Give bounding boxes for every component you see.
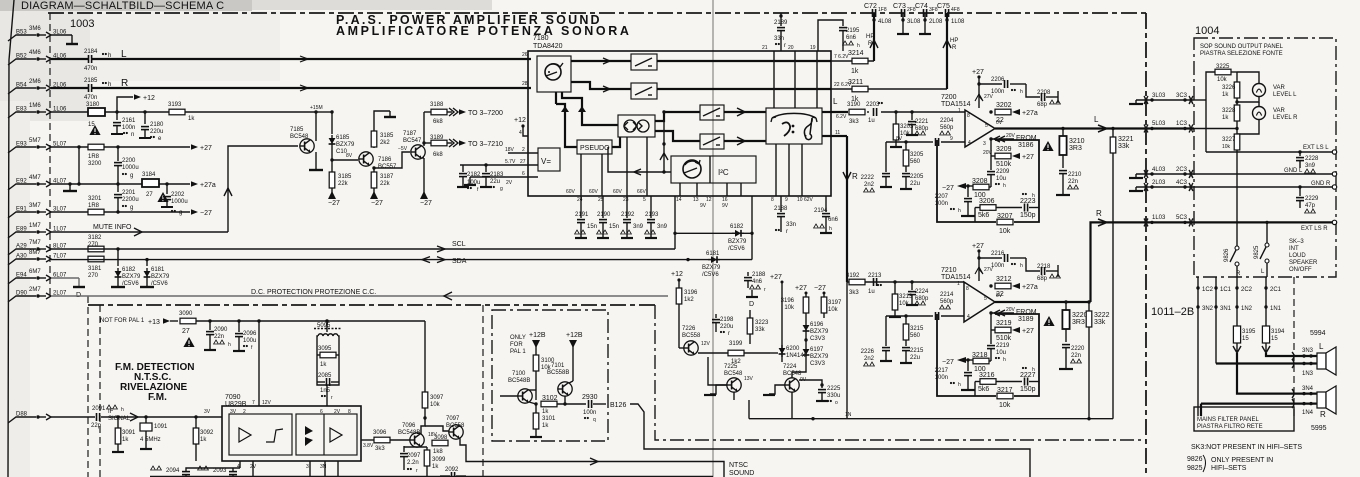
svg-text:15: 15 [1242,336,1249,342]
capacitor 2202 1000u [161,184,188,216]
svg-text:20V: 20V [983,150,993,156]
svg-text:−27: −27 [371,200,383,207]
svg-text:26: 26 [522,52,528,58]
wire pot links [1205,100,1207,152]
svg-text:/C5V6: /C5V6 [122,281,139,287]
capacitor 2192 3n9 [621,196,644,238]
svg-text:E93: E93 [16,142,27,148]
svg-text:7 6.2V: 7 6.2V [834,54,849,60]
svg-text:R: R [1320,410,1326,419]
label SOP panel [1200,44,1284,57]
svg-text:2225: 2225 [827,386,841,392]
svg-text:10 62V: 10 62V [797,197,814,203]
svg-text:3R3: 3R3 [1069,145,1082,152]
wire R to TDA8420 pin 28 [92,81,531,91]
resistor 3180 [86,102,105,128]
svg-text:6.2V: 6.2V [836,114,847,120]
svg-text:I²C: I²C [718,168,729,177]
svg-text:1N4148: 1N4148 [786,353,808,359]
svg-text:13: 13 [693,197,699,203]
svg-text:2189: 2189 [774,20,788,26]
resistor 3215 560 [903,316,924,346]
svg-text:+27: +27 [200,145,212,152]
capacitor 2185 470n [51,78,111,101]
svg-text:33n: 33n [786,222,796,228]
svg-text:/C5V6: /C5V6 [728,246,745,252]
svg-text:8V: 8V [346,153,353,159]
svg-text:5k6: 5k6 [978,212,989,219]
svg-text:R: R [868,41,873,47]
svg-text:SK–3: SK–3 [1289,239,1304,245]
svg-text:47p: 47p [1305,203,1316,209]
capacitor 2228 3n9 [1296,150,1319,173]
svg-text:D.C. PROTECTION PROTEZIONE: D.C. PROTECTION PROTEZIONE C.C. [251,289,376,296]
capacitor 2930 100n [582,394,606,423]
svg-text:3221: 3221 [1118,136,1134,143]
svg-text:3206: 3206 [979,198,995,205]
wire L to TDA8420 pin 26 [92,52,531,62]
svg-text:19: 19 [810,45,816,51]
connector B54 [8,79,67,94]
net -27 arrow [191,209,212,217]
capacitor 2200 1000u [114,147,139,184]
resistor 3197 10k [814,285,842,318]
capacitor 2184 470n [51,49,111,72]
zener 6181 BZX79/C5V6 [140,259,170,287]
svg-text:1n5: 1n5 [320,388,331,394]
capacitor 2090 22n [204,321,231,350]
net FROM 3186 [989,133,1036,149]
svg-text:3194: 3194 [1271,329,1285,335]
resistor 3210 3R3 [1059,127,1084,168]
wire SDA [51,196,754,265]
svg-text:B53: B53 [16,30,27,36]
resistor 3223 33k [747,310,769,344]
svg-text:1C3: 1C3 [1176,121,1188,127]
svg-text:9: 9 [950,136,953,142]
internal risers to bottom pins [771,144,814,203]
svg-text:B54: B54 [16,83,27,89]
svg-text:B126: B126 [610,402,626,409]
svg-text:F.M.: F.M. [148,392,167,403]
svg-text:PIASTRA FILTRO RETE: PIASTRA FILTRO RETE [1197,424,1263,430]
diode 6182 BZX79/C5V6 [675,224,752,252]
connector A30 [8,250,67,265]
transistor 7096 BC548B [398,423,438,447]
svg-text:HIFI–SETS: HIFI–SETS [1211,465,1247,472]
svg-text:3202: 3202 [996,102,1012,109]
resistor 3198 1k2 [676,288,698,340]
svg-text:2L08: 2L08 [929,19,943,25]
capacitor 2216 100n [979,251,1026,269]
connector E89 [8,223,67,238]
connector column 1C2/3N2 [1196,277,1213,416]
svg-text:1N3: 1N3 [1302,371,1314,377]
transistor 7226 BC558 [679,326,711,355]
svg-text:3092: 3092 [200,430,214,436]
capacitor 2220 22n [1059,345,1085,369]
svg-text:1F8: 1F8 [878,7,887,13]
svg-text:3210: 3210 [1069,138,1085,145]
svg-text:SOP SOUND OUTPUT PANEL: SOP SOUND OUTPUT PANEL [1200,44,1284,50]
svg-text:SCL: SCL [452,241,466,248]
svg-text:3.8V: 3.8V [363,443,374,449]
resistor 3207 10k [997,213,1013,235]
svg-text:3N4: 3N4 [1302,386,1314,392]
svg-text:E83: E83 [16,107,27,113]
resistor 3193 1k [168,102,195,122]
svg-text:2228: 2228 [1305,156,1319,162]
svg-text:3098: 3098 [434,435,448,441]
svg-text:2198: 2198 [720,317,734,323]
svg-text:4: 4 [968,140,971,146]
svg-text:C74: C74 [915,3,928,10]
svg-text:5.7V: 5.7V [505,159,516,165]
svg-text:100n: 100n [991,263,1004,269]
svg-text:VAR: VAR [1273,108,1286,114]
svg-text:10k: 10k [784,305,795,311]
transistor 7097 BC558 [446,416,465,439]
svg-text:3185: 3185 [338,174,352,180]
svg-text:+27a: +27a [1022,284,1038,291]
svg-text:o: o [835,400,838,406]
svg-text:7100: 7100 [512,371,526,377]
svg-text:7224: 7224 [783,364,797,370]
svg-text:15: 15 [1271,336,1278,342]
zener 6185 BZX79 C10 [329,112,355,162]
svg-text:10k: 10k [1222,144,1231,150]
resistor 3192 3k3 [846,273,865,296]
svg-text:2: 2 [522,147,525,153]
svg-text:270: 270 [88,242,99,248]
svg-text:3211: 3211 [848,79,863,86]
svg-text:3L08: 3L08 [907,19,921,25]
resistor 3098 1k8 [432,435,448,455]
connector column 2C2/1N2 [1235,277,1252,326]
svg-text:2V: 2V [506,180,513,186]
svg-text:6181: 6181 [706,251,720,257]
svg-text:+27: +27 [1022,154,1034,161]
IC 7090 pin stubs [230,409,351,470]
svg-text:7185: 7185 [290,127,304,133]
svg-text:22n: 22n [1071,353,1081,359]
svg-text:/C5V6: /C5V6 [702,272,719,278]
svg-text:1L08: 1L08 [951,19,965,25]
capacitor 2085 1n5 [317,373,339,401]
svg-text:FROM: FROM [1016,135,1037,142]
svg-text:2220: 2220 [1071,346,1085,352]
svg-text:g: g [500,186,503,192]
capacitor 2093 [198,461,253,477]
svg-text:7097: 7097 [446,416,460,422]
capacitor 2204 560p [930,118,965,146]
svg-text:2188: 2188 [752,272,766,278]
resistor 3222 33k [1086,300,1109,418]
svg-text:E91: E91 [16,207,27,213]
svg-text:7186: 7186 [378,157,392,163]
wire inverting input network [886,136,930,144]
svg-text:7M7: 7M7 [29,240,41,246]
IC bottom pin wires [310,461,338,477]
svg-text:1M7: 1M7 [29,223,41,229]
svg-text:8: 8 [348,409,351,415]
svg-text:1011–2B: 1011–2B [1151,306,1194,318]
svg-text:h: h [121,407,124,413]
transistor 7187 BC547 [403,131,425,159]
svg-text:470n: 470n [84,95,97,101]
capacitor 2189 33n [774,13,788,51]
svg-text:10k: 10k [828,307,839,313]
svg-text:10k: 10k [999,228,1011,235]
net +27 supply R [972,243,994,281]
svg-text:9826: 9826 [1224,248,1230,262]
svg-text:BC558B: BC558B [547,370,569,376]
svg-text:2209: 2209 [996,169,1010,175]
wire 7187 collector column [420,112,432,207]
resistor 3095 1k [317,346,339,368]
svg-text:A30: A30 [16,254,27,260]
svg-text:5k6: 5k6 [978,386,989,393]
svg-text:3192: 3192 [846,273,860,279]
resistor 3090 27 [179,311,196,335]
svg-text:R: R [952,45,957,51]
svg-text:3099: 3099 [432,457,446,463]
svg-text:NOT FOR PAL 1: NOT FOR PAL 1 [100,318,145,324]
transistor 7100 BC548B [500,371,532,403]
svg-text:100n: 100n [583,410,596,416]
wire B53 stub to ground [51,35,78,44]
svg-text:60V: 60V [589,189,599,195]
top dash-dot border [48,12,1146,14]
svg-text:2190: 2190 [597,212,611,218]
warning triangle 3184 [157,192,168,202]
wire column x79 [78,147,80,184]
wire tone L out [822,111,831,113]
svg-text:4F8: 4F8 [951,7,960,13]
net +27 arrow [191,144,212,152]
pin 2 [505,147,538,153]
svg-text:BZX79: BZX79 [810,354,829,360]
svg-text:2202: 2202 [171,192,185,198]
resistor 3184 27 [142,172,159,198]
svg-text:4n6: 4n6 [752,279,763,285]
resistor 3091 1k [112,415,136,452]
svg-text:2184: 2184 [84,49,98,55]
svg-text:L: L [833,97,838,106]
diode 6200 1N4148 [779,340,808,362]
wire SCL [51,196,677,252]
svg-text:3V: 3V [230,409,237,415]
svg-text:2200: 2200 [122,158,136,164]
board 1003 dashed boundary [49,13,51,296]
wire amp L output [995,115,1146,132]
capacitor 2208 68p [1026,84,1060,108]
wire pseudo loop [608,137,671,175]
feedback loop box 7210 [937,314,1039,396]
svg-text:270: 270 [88,273,99,279]
svg-text:1N: 1N [845,412,852,418]
svg-text:BZX79: BZX79 [810,329,829,335]
svg-text:4L03: 4L03 [1152,167,1166,173]
svg-text:10u: 10u [996,176,1006,182]
svg-text:2930: 2930 [582,394,598,401]
svg-text:3182: 3182 [88,235,102,241]
svg-text:66V: 66V [637,189,647,195]
svg-text:3189: 3189 [1018,316,1034,323]
svg-text:20: 20 [788,45,794,51]
wire IF signal [51,409,138,422]
svg-text:1k: 1k [851,68,859,75]
svg-text:2221: 2221 [915,119,929,125]
capacitor 2205 22u [900,174,924,189]
svg-text:2096: 2096 [243,331,257,337]
warning triangle E83 [89,125,100,135]
svg-text:+12: +12 [514,117,526,124]
svg-text:3186: 3186 [1018,142,1034,149]
svg-text:1M6: 1M6 [29,103,41,109]
svg-text:3190: 3190 [847,102,861,108]
svg-text:100u: 100u [243,338,256,344]
label SK-3 [1289,239,1318,273]
svg-text:11: 11 [835,130,840,136]
svg-text:1k: 1k [188,116,195,122]
capacitor 2191 15n [575,196,597,238]
capacitor 2223 150p [1020,193,1039,219]
svg-text:g: g [179,210,182,216]
svg-text:3: 3 [306,464,309,470]
svg-text:3N1: 3N1 [1220,306,1232,312]
svg-text:5: 5 [643,197,646,203]
resistor 3208 100 [972,178,991,199]
svg-text:3215: 3215 [910,326,924,332]
feedback loop box 7200 [937,140,1039,222]
svg-text:3220: 3220 [1072,312,1088,319]
PAL box dash-dot [492,310,608,441]
svg-text:1k: 1k [432,464,439,470]
note 9826/9825 [1187,455,1273,472]
svg-text:3k3: 3k3 [849,119,859,125]
svg-text:2219: 2219 [996,343,1010,349]
svg-text:22k: 22k [338,181,349,187]
connector E93 [8,138,67,153]
wire eq L to tone [724,108,766,116]
ground D [746,290,758,308]
resistor 3199 1k2 [698,341,770,365]
switch 9826 [1224,241,1241,277]
resistor 3188 6k8 [424,102,447,125]
svg-text:2229: 2229 [1305,196,1319,202]
feedback column [660,112,668,174]
right border vertical dash-dot [1145,13,1147,477]
svg-text:2195: 2195 [846,28,860,34]
svg-text:E89: E89 [16,227,27,233]
svg-text:3216: 3216 [979,372,995,379]
svg-text:2183: 2183 [490,172,504,178]
resistor 3101 1k [530,404,556,437]
coil 5095 [314,321,341,406]
svg-text:3200: 3200 [88,161,102,167]
wire panel L input [1194,100,1239,130]
eq block R [700,134,724,149]
svg-text:2215: 2215 [910,348,924,354]
wire D.C. protection [51,289,668,300]
pin 22 wire [831,82,947,89]
svg-text:6: 6 [522,171,525,177]
wire 7101 collector [564,396,566,404]
svg-text:BZX79: BZX79 [122,274,141,280]
wire 7097 base [425,426,449,431]
svg-text:1u: 1u [868,289,875,295]
svg-text:2180: 2180 [150,122,164,128]
svg-text:6k8: 6k8 [433,152,443,158]
svg-text:2V: 2V [334,409,341,415]
svg-text:+12B: +12B [566,332,583,339]
svg-text:7200: 7200 [941,94,957,101]
resistor 3185 22k [328,160,352,207]
resistor 3205 560 [903,142,924,172]
svg-text:2C2: 2C2 [1241,287,1253,293]
svg-text:3M6: 3M6 [29,26,41,32]
svg-text:4L08: 4L08 [878,19,892,25]
svg-text:2191: 2191 [575,212,589,218]
wire inverting input network R [886,314,930,317]
svg-text:V=: V= [541,157,551,166]
svg-text:1k: 1k [542,409,549,415]
svg-text:22u: 22u [490,179,500,185]
svg-text:20V: 20V [1006,133,1016,139]
svg-text:560: 560 [910,159,921,165]
svg-text:22u: 22u [910,181,920,187]
wire amp R output [995,209,1146,302]
svg-text:U829B: U829B [225,401,247,408]
svg-text:LEVEL L: LEVEL L [1273,92,1297,98]
svg-text:4C3: 4C3 [1176,180,1188,186]
svg-text:SPEAKER: SPEAKER [1289,260,1318,266]
svg-text:6M7: 6M7 [29,269,41,275]
svg-text:5M7: 5M7 [29,138,41,144]
mains filter right boundary [1292,277,1294,416]
svg-text:HP: HP [950,38,958,44]
svg-text:A29: A29 [16,244,27,250]
svg-text:27: 27 [520,159,526,165]
resistor 3227 10k [1222,134,1240,241]
wire row 4L03/2C3 [1129,167,1194,178]
svg-text:2C1: 2C1 [1270,287,1282,293]
svg-text:60V: 60V [613,189,623,195]
capacitor 2217 100n [935,360,975,390]
wire HP R column right [943,13,958,89]
connector D90 [8,287,67,302]
resistor 3226 1k [1222,72,1240,106]
svg-text:h: h [1003,183,1006,189]
svg-text:/C5V6: /C5V6 [151,281,168,287]
wire zobel return rail [749,412,1113,420]
resistor 3181 270 [88,256,104,279]
svg-text:D90: D90 [16,291,28,297]
svg-text:560p: 560p [940,299,954,305]
svg-text:1: 1 [958,108,961,114]
wire volume L to pin 7 [657,60,831,62]
svg-text:2200u: 2200u [122,197,139,203]
mains filter panel box [1194,407,1294,431]
svg-text:470n: 470n [84,66,97,72]
svg-text:1k: 1k [1222,92,1229,98]
svg-text:3195: 3195 [1242,329,1256,335]
svg-text:2: 2 [243,409,246,415]
svg-text:h: h [1032,193,1035,199]
wire 7100 collector/emitter [529,385,538,406]
svg-text:2223: 2223 [1020,198,1036,205]
